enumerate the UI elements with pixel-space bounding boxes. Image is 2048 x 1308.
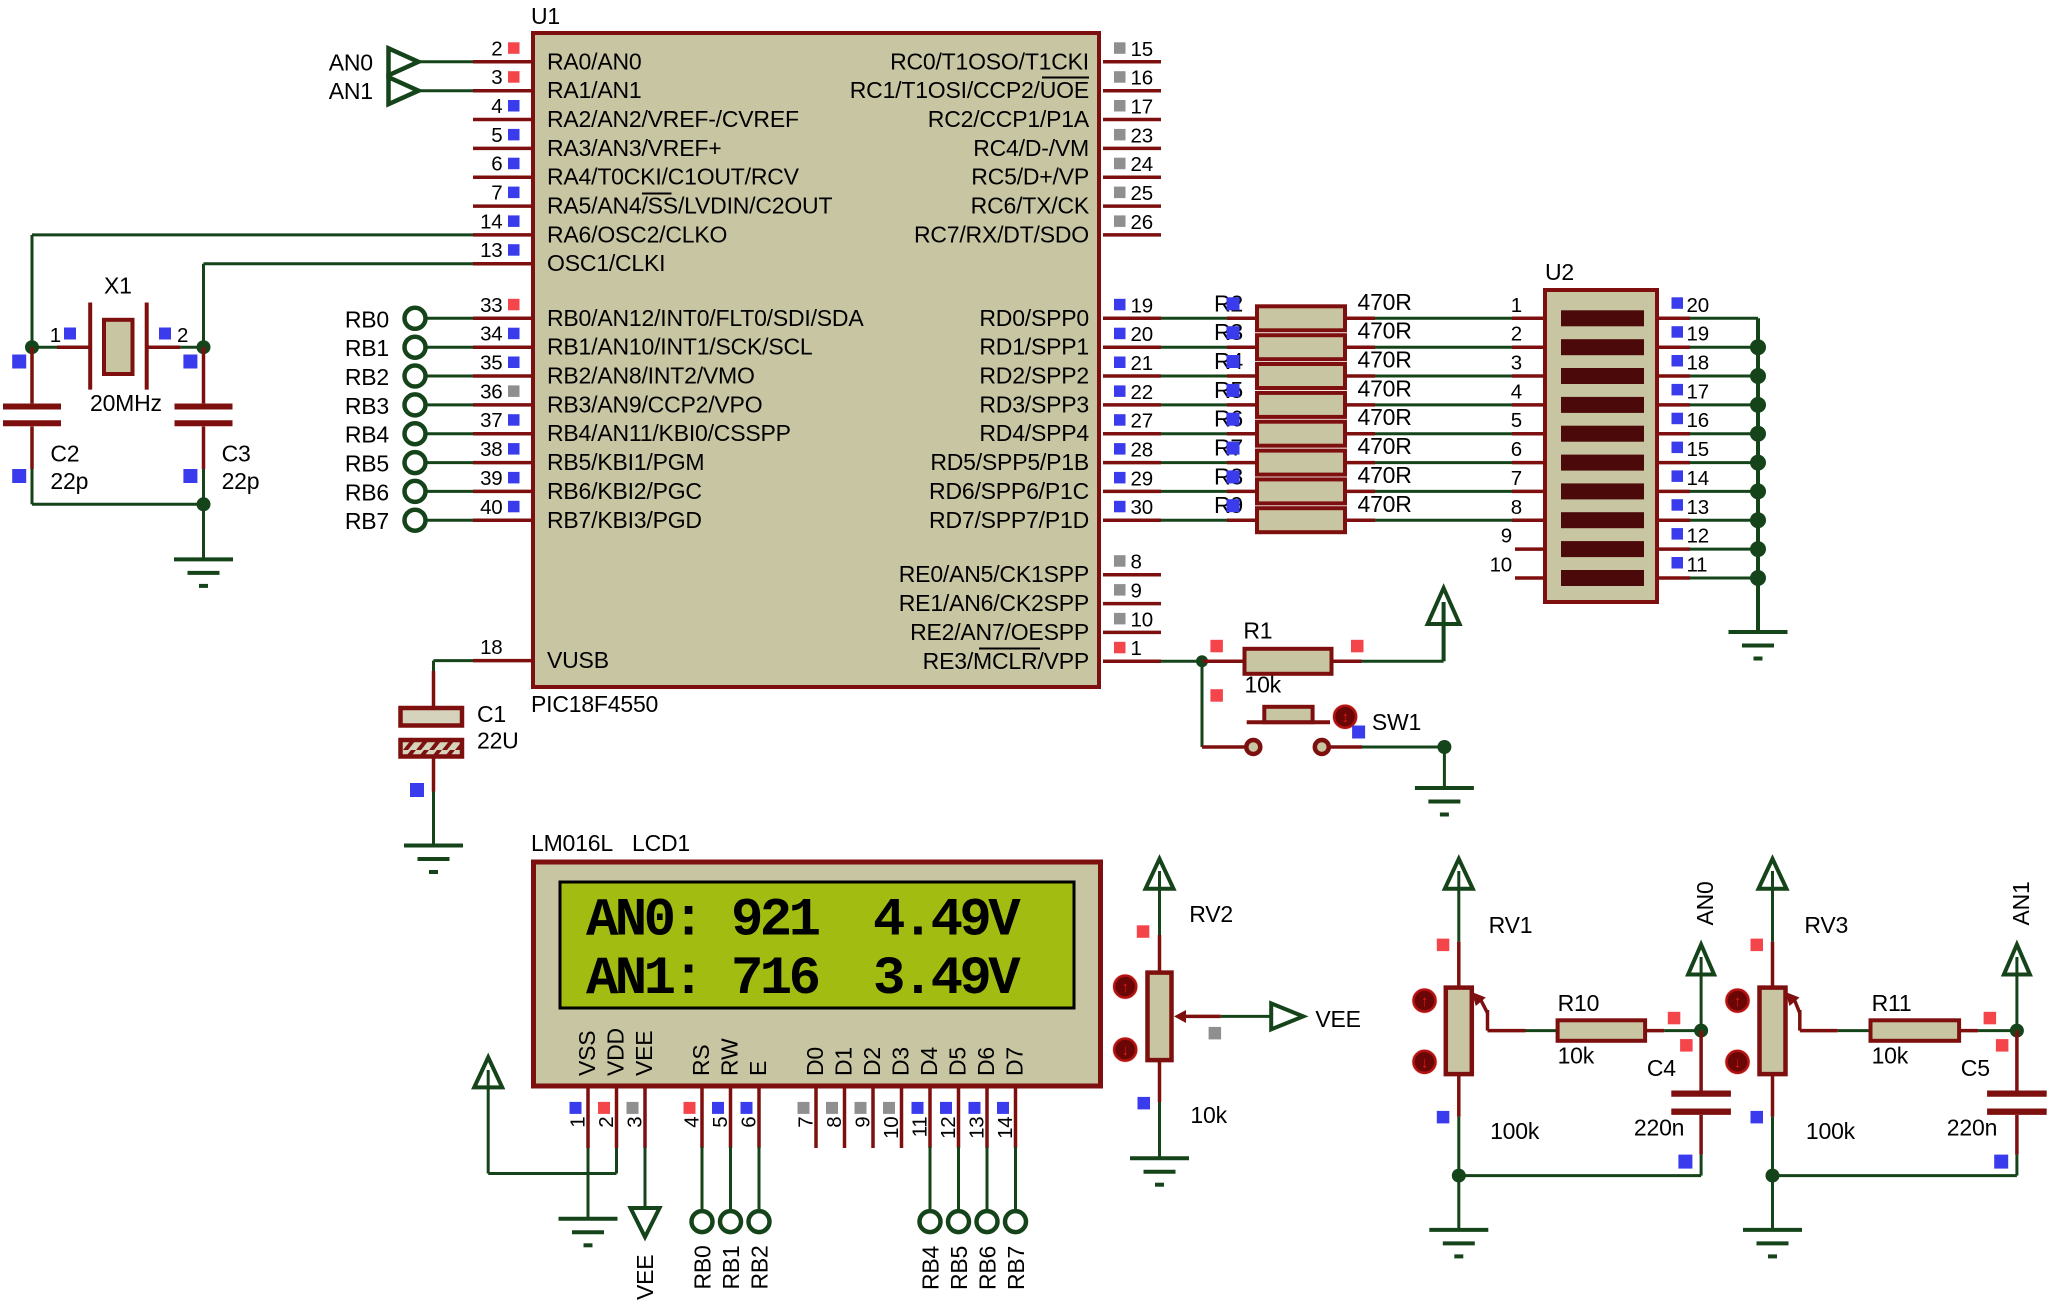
svg-text:17: 17 [1131, 96, 1153, 119]
svg-text:RV2: RV2 [1189, 901, 1233, 927]
svg-text:470R: 470R [1358, 462, 1412, 488]
svg-text:D7: D7 [1002, 1047, 1028, 1076]
svg-text:RB1: RB1 [345, 335, 389, 361]
svg-text:RB2: RB2 [747, 1245, 773, 1289]
svg-text:921: 921 [731, 891, 820, 952]
svg-text:RC2/CCP1/P1A: RC2/CCP1/P1A [928, 106, 1090, 132]
svg-text:8: 8 [823, 1117, 846, 1128]
svg-text:C2: C2 [50, 441, 79, 467]
svg-text:↓: ↓ [1734, 1054, 1741, 1071]
svg-text:6: 6 [1511, 438, 1522, 461]
svg-text:RC1/T1OSI/CCP2/UOE: RC1/T1OSI/CCP2/UOE [850, 77, 1089, 103]
svg-text:5: 5 [1511, 409, 1522, 432]
svg-text:RD0/SPP0: RD0/SPP0 [979, 305, 1089, 331]
svg-text:RB1/AN10/INT1/SCK/SCL: RB1/AN10/INT1/SCK/SCL [547, 334, 813, 360]
svg-text:16: 16 [1131, 67, 1153, 90]
svg-text:3: 3 [624, 1117, 647, 1128]
svg-text:RC4/D-/VM: RC4/D-/VM [973, 135, 1089, 161]
svg-text:6: 6 [738, 1117, 761, 1128]
svg-text:470R: 470R [1358, 347, 1412, 373]
svg-text:23: 23 [1131, 124, 1153, 147]
svg-text:10k: 10k [1872, 1043, 1909, 1069]
svg-text:RB1: RB1 [718, 1245, 744, 1289]
svg-text:11: 11 [1687, 554, 1708, 577]
svg-text:19: 19 [1687, 323, 1709, 346]
svg-text:PIC18F4550: PIC18F4550 [531, 691, 658, 717]
svg-text:RB6: RB6 [345, 479, 389, 505]
svg-text:1: 1 [1511, 294, 1522, 317]
svg-text:RB2: RB2 [345, 364, 389, 390]
svg-text:D2: D2 [859, 1047, 885, 1076]
svg-text:↓: ↓ [1421, 1054, 1428, 1071]
svg-text:RE1/AN6/CK2SPP: RE1/AN6/CK2SPP [899, 590, 1089, 616]
svg-text:AN1:: AN1: [586, 949, 701, 1010]
svg-text:RA3/AN3/VREF+: RA3/AN3/VREF+ [547, 135, 721, 161]
svg-text:220n: 220n [1634, 1114, 1684, 1140]
svg-text:RE3/MCLR/VPP: RE3/MCLR/VPP [923, 648, 1089, 674]
svg-text:SW1: SW1 [1372, 709, 1421, 735]
svg-text:22: 22 [1131, 381, 1153, 404]
svg-text:RB0: RB0 [690, 1245, 716, 1289]
svg-text:18: 18 [480, 636, 502, 659]
svg-text:7: 7 [795, 1117, 818, 1128]
svg-text:7: 7 [1511, 467, 1522, 490]
svg-text:13: 13 [1687, 496, 1709, 519]
svg-text:13: 13 [480, 239, 502, 262]
svg-text:6: 6 [491, 153, 502, 176]
svg-text:15: 15 [1687, 438, 1709, 461]
svg-text:14: 14 [994, 1117, 1017, 1139]
svg-text:33: 33 [480, 294, 502, 317]
svg-text:29: 29 [1131, 467, 1153, 490]
svg-text:C5: C5 [1961, 1055, 1990, 1081]
svg-text:LCD1: LCD1 [632, 830, 690, 856]
svg-text:↑: ↑ [1734, 993, 1741, 1010]
svg-text:RA5/AN4/SS/LVDIN/C2OUT: RA5/AN4/SS/LVDIN/C2OUT [547, 193, 832, 219]
svg-text:1: 1 [1131, 637, 1142, 660]
svg-text:10: 10 [1131, 608, 1153, 631]
svg-text:RB7/KBI3/PGD: RB7/KBI3/PGD [547, 507, 702, 533]
svg-text:470R: 470R [1358, 404, 1412, 430]
svg-text:100k: 100k [1490, 1118, 1540, 1144]
svg-text:RD1/SPP1: RD1/SPP1 [979, 334, 1089, 360]
svg-text:28: 28 [1131, 439, 1153, 462]
svg-text:1: 1 [50, 324, 61, 347]
svg-text:RA0/AN0: RA0/AN0 [547, 48, 641, 74]
svg-text:RC5/D+/VP: RC5/D+/VP [971, 164, 1089, 190]
svg-text:D4: D4 [916, 1047, 942, 1076]
svg-text:RE2/AN7/OESPP: RE2/AN7/OESPP [910, 619, 1089, 645]
svg-text:VUSB: VUSB [547, 647, 609, 673]
svg-text:U1: U1 [531, 3, 560, 29]
svg-text:E: E [745, 1061, 771, 1076]
svg-text:27: 27 [1131, 410, 1153, 433]
svg-text:20: 20 [1687, 294, 1709, 317]
svg-text:RA2/AN2/VREF-/CVREF: RA2/AN2/VREF-/CVREF [547, 106, 799, 132]
svg-text:38: 38 [480, 438, 502, 461]
svg-text:4: 4 [1511, 380, 1522, 403]
svg-text:7: 7 [491, 182, 502, 205]
svg-text:VEE: VEE [1315, 1006, 1360, 1032]
svg-text:40: 40 [480, 496, 502, 519]
svg-text:9: 9 [1501, 525, 1512, 548]
svg-text:RD3/SPP3: RD3/SPP3 [979, 391, 1089, 417]
svg-text:17: 17 [1687, 380, 1709, 403]
svg-text:RB6: RB6 [975, 1246, 1001, 1290]
svg-text:20: 20 [1131, 323, 1153, 346]
svg-text:12: 12 [937, 1117, 960, 1139]
svg-text:RB0: RB0 [345, 306, 389, 332]
svg-text:VSS: VSS [574, 1031, 600, 1076]
svg-text:25: 25 [1131, 182, 1153, 205]
svg-text:RB4: RB4 [345, 422, 390, 448]
svg-text:14: 14 [1687, 467, 1709, 490]
svg-text:R1: R1 [1243, 618, 1272, 644]
svg-text:↑: ↑ [1122, 979, 1129, 996]
svg-text:716: 716 [731, 949, 819, 1010]
svg-text:2: 2 [1511, 323, 1522, 346]
svg-text:10k: 10k [1245, 672, 1282, 698]
svg-text:RD7/SPP7/P1D: RD7/SPP7/P1D [929, 507, 1089, 533]
svg-text:RA4/T0CKI/C1OUT/RCV: RA4/T0CKI/C1OUT/RCV [547, 164, 800, 190]
svg-text:OSC1/CLKI: OSC1/CLKI [547, 250, 665, 276]
svg-text:20MHz: 20MHz [90, 390, 162, 416]
svg-text:AN1: AN1 [329, 78, 373, 104]
svg-text:10: 10 [880, 1117, 903, 1139]
svg-text:D3: D3 [888, 1047, 914, 1076]
svg-text:RB7: RB7 [1003, 1246, 1029, 1290]
svg-text:VDD: VDD [603, 1028, 629, 1076]
svg-text:RC6/TX/CK: RC6/TX/CK [971, 193, 1090, 219]
svg-text:AN1: AN1 [2008, 881, 2034, 925]
svg-text:10: 10 [1490, 554, 1512, 577]
svg-text:470R: 470R [1358, 318, 1412, 344]
svg-text:RD4/SPP4: RD4/SPP4 [979, 420, 1089, 446]
svg-text:RB0/AN12/INT0/FLT0/SDI/SDA: RB0/AN12/INT0/FLT0/SDI/SDA [547, 305, 864, 331]
svg-text:RB5: RB5 [345, 451, 389, 477]
svg-text:11: 11 [909, 1117, 932, 1138]
svg-text:RV1: RV1 [1489, 912, 1533, 938]
svg-text:15: 15 [1131, 38, 1153, 61]
svg-text:22p: 22p [50, 468, 88, 494]
svg-text:22U: 22U [477, 728, 519, 754]
svg-text:AN0:: AN0: [586, 891, 701, 952]
svg-text:36: 36 [480, 380, 502, 403]
svg-text:9: 9 [852, 1117, 875, 1128]
svg-text:14: 14 [480, 210, 502, 233]
svg-text:AN0: AN0 [329, 49, 373, 75]
svg-text:R11: R11 [1872, 990, 1912, 1016]
svg-text:RD5/SPP5/P1B: RD5/SPP5/P1B [930, 449, 1089, 475]
svg-text:VEE: VEE [632, 1255, 658, 1300]
svg-text:470R: 470R [1358, 491, 1412, 517]
svg-text:12: 12 [1687, 525, 1709, 548]
svg-text:↑: ↑ [1421, 993, 1428, 1010]
svg-text:RB5: RB5 [946, 1246, 972, 1290]
svg-text:1: 1 [567, 1117, 590, 1128]
svg-text:34: 34 [480, 323, 502, 346]
svg-text:21: 21 [1131, 352, 1153, 375]
svg-text:RA1/AN1: RA1/AN1 [547, 77, 641, 103]
svg-text:24: 24 [1131, 153, 1153, 176]
svg-text:4: 4 [681, 1117, 704, 1128]
svg-text:RC0/T1OSO/T1CKI: RC0/T1OSO/T1CKI [890, 48, 1089, 74]
svg-text:LM016L: LM016L [531, 830, 613, 856]
svg-text:470R: 470R [1358, 375, 1412, 401]
svg-text:VEE: VEE [631, 1031, 657, 1076]
svg-text:RB2/AN8/INT2/VMO: RB2/AN8/INT2/VMO [547, 363, 755, 389]
svg-text:220n: 220n [1947, 1114, 1997, 1140]
svg-text:D0: D0 [802, 1047, 828, 1076]
svg-text:RB7: RB7 [345, 508, 389, 534]
svg-text:RB3/AN9/CCP2/VPO: RB3/AN9/CCP2/VPO [547, 391, 762, 417]
svg-text:5: 5 [491, 124, 502, 147]
svg-text:R10: R10 [1558, 990, 1600, 1016]
svg-text:RS: RS [688, 1044, 714, 1076]
svg-text:C3: C3 [222, 441, 251, 467]
svg-text:470R: 470R [1358, 289, 1412, 315]
svg-text:C4: C4 [1647, 1055, 1676, 1081]
svg-text:19: 19 [1131, 294, 1153, 317]
svg-text:U2: U2 [1545, 259, 1574, 285]
svg-text:RB4: RB4 [918, 1245, 944, 1290]
svg-text:30: 30 [1131, 496, 1153, 519]
svg-text:39: 39 [480, 467, 502, 490]
svg-text:RA6/OSC2/CLKO: RA6/OSC2/CLKO [547, 221, 727, 247]
svg-text:RV3: RV3 [1804, 912, 1848, 938]
svg-text:RB6/KBI2/PGC: RB6/KBI2/PGC [547, 478, 702, 504]
svg-text:18: 18 [1687, 352, 1709, 375]
svg-text:4.49V: 4.49V [873, 891, 1021, 952]
svg-text:2: 2 [177, 324, 188, 347]
svg-text:100k: 100k [1806, 1118, 1856, 1144]
svg-text:RD2/SPP2: RD2/SPP2 [979, 363, 1089, 389]
svg-text:RB4/AN11/KBI0/CSSPP: RB4/AN11/KBI0/CSSPP [547, 420, 791, 446]
svg-text:RC7/RX/DT/SDO: RC7/RX/DT/SDO [914, 221, 1089, 247]
svg-text:13: 13 [966, 1117, 989, 1139]
svg-text:RD6/SPP6/P1C: RD6/SPP6/P1C [929, 478, 1089, 504]
svg-text:10k: 10k [1190, 1102, 1227, 1128]
svg-text:D1: D1 [831, 1047, 857, 1076]
svg-text:3.49V: 3.49V [873, 949, 1021, 1010]
svg-text:C1: C1 [477, 701, 506, 727]
svg-text:8: 8 [1131, 551, 1142, 574]
svg-text:D6: D6 [973, 1047, 999, 1076]
svg-text:D5: D5 [945, 1047, 971, 1076]
svg-text:5: 5 [709, 1117, 732, 1128]
svg-text:RE0/AN5/CK1SPP: RE0/AN5/CK1SPP [899, 561, 1089, 587]
svg-text:3: 3 [1511, 352, 1522, 375]
svg-text:2: 2 [491, 37, 502, 60]
svg-text:35: 35 [480, 352, 502, 375]
svg-text:16: 16 [1687, 409, 1709, 432]
svg-text:AN0: AN0 [1692, 881, 1718, 925]
svg-text:RB3: RB3 [345, 393, 389, 419]
svg-text:22p: 22p [222, 468, 260, 494]
svg-text:26: 26 [1131, 211, 1153, 234]
svg-text:↕: ↕ [1341, 709, 1348, 726]
svg-text:9: 9 [1131, 580, 1142, 603]
svg-text:470R: 470R [1358, 433, 1412, 459]
svg-text:↓: ↓ [1122, 1042, 1129, 1059]
svg-text:8: 8 [1511, 496, 1522, 519]
svg-text:4: 4 [491, 95, 502, 118]
svg-text:37: 37 [480, 409, 502, 432]
svg-text:10k: 10k [1558, 1043, 1595, 1069]
svg-text:RW: RW [717, 1038, 743, 1076]
svg-text:3: 3 [491, 66, 502, 89]
svg-text:RB5/KBI1/PGM: RB5/KBI1/PGM [547, 449, 704, 475]
svg-text:X1: X1 [104, 272, 132, 298]
svg-text:2: 2 [595, 1117, 618, 1128]
